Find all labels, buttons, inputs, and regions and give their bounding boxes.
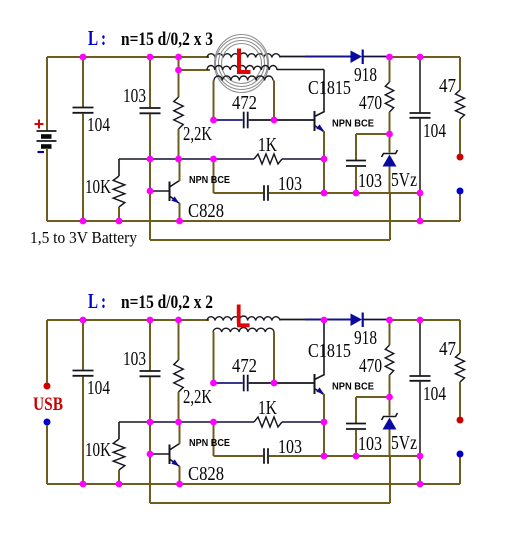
svg-text:918: 918	[354, 327, 377, 349]
svg-text:103: 103	[278, 436, 302, 458]
svg-text:n=15 d/0,2 x 2: n=15 d/0,2 x 2	[121, 292, 213, 313]
svg-text:103: 103	[278, 173, 302, 195]
svg-text:470: 470	[359, 355, 382, 377]
svg-text:472: 472	[232, 92, 257, 114]
svg-text:103: 103	[123, 348, 146, 370]
svg-text:472: 472	[232, 355, 257, 377]
svg-text:1K: 1K	[258, 397, 277, 419]
svg-text:C1815: C1815	[308, 340, 351, 362]
svg-text:104: 104	[87, 114, 110, 136]
svg-text:L :: L :	[88, 289, 106, 313]
svg-text:NPN BCE: NPN BCE	[189, 175, 230, 186]
svg-text:5Vz: 5Vz	[391, 432, 417, 454]
svg-text:104: 104	[87, 377, 110, 399]
svg-text:NPN BCE: NPN BCE	[332, 382, 374, 393]
svg-text:2,2K: 2,2K	[183, 123, 212, 145]
svg-text:103: 103	[358, 170, 382, 192]
svg-text:2,2K: 2,2K	[183, 386, 212, 408]
svg-text:103: 103	[123, 85, 146, 107]
svg-text:C1815: C1815	[308, 77, 351, 99]
svg-text:NPN BCE: NPN BCE	[332, 119, 374, 130]
svg-text:n=15 d/0,2 x 3: n=15 d/0,2 x 3	[121, 29, 213, 50]
svg-text:470: 470	[359, 92, 382, 114]
svg-text:NPN BCE: NPN BCE	[189, 438, 230, 449]
svg-text:10K: 10K	[85, 439, 111, 461]
svg-text:47: 47	[439, 338, 456, 360]
svg-text:918: 918	[354, 64, 377, 86]
svg-text:104: 104	[423, 120, 446, 142]
svg-text:103: 103	[358, 433, 382, 455]
svg-text:C828: C828	[188, 463, 224, 485]
svg-text:47: 47	[439, 75, 456, 97]
svg-text:5Vz: 5Vz	[391, 169, 417, 191]
svg-text:1K: 1K	[258, 134, 277, 156]
svg-text:L :: L :	[88, 26, 106, 50]
svg-text:1,5 to 3V Battery: 1,5 to 3V Battery	[30, 228, 137, 247]
svg-text:C828: C828	[188, 200, 224, 222]
svg-text:10K: 10K	[85, 176, 111, 198]
svg-text:USB: USB	[33, 394, 63, 415]
svg-text:104: 104	[423, 383, 446, 405]
